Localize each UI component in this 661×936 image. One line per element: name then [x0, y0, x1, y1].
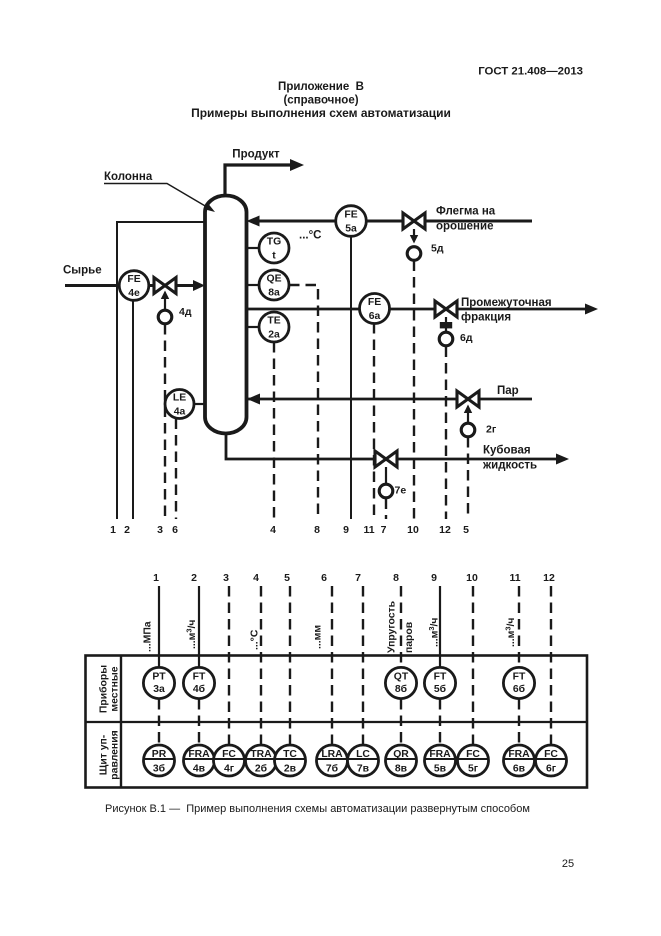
svg-text:5д: 5д — [431, 243, 444, 255]
svg-text:6г: 6г — [546, 764, 557, 775]
svg-text:8: 8 — [314, 524, 320, 536]
wire col8 — [400, 586, 402, 667]
svg-text:жидкость: жидкость — [482, 460, 537, 472]
pipe intermediate fraction line — [246, 308, 586, 311]
svg-text:2б: 2б — [255, 763, 267, 775]
instrument PT 3a — [143, 667, 174, 698]
wire line 5 dashed (from actuator 2г down) — [467, 437, 469, 519]
svg-text:Рисунок В.1 — Пример выполнен: Рисунок В.1 — Пример выполнения схемы ав… — [105, 803, 530, 815]
valve 5д — [403, 213, 414, 229]
instrument TE 2a — [246, 326, 260, 328]
valve 4д — [154, 278, 165, 294]
wire line 4 dashed (from TE 2a down) — [273, 342, 275, 519]
pipe steam line (Пар) — [246, 398, 532, 401]
svg-text:4е: 4е — [128, 288, 140, 299]
instrument QT 8б — [385, 667, 416, 698]
svg-text:9: 9 — [431, 572, 437, 584]
instrument FC 4г — [214, 745, 245, 776]
svg-text:2в: 2в — [284, 764, 296, 775]
wire line 10 dashed (from actuator 5д down) — [413, 261, 415, 520]
svg-text:7е: 7е — [395, 485, 407, 497]
valve 6д — [435, 301, 446, 317]
svg-text:Колонна: Колонна — [104, 171, 153, 183]
svg-text:TE: TE — [267, 316, 280, 327]
instrument LC 7в — [348, 745, 379, 776]
svg-text:Продукт: Продукт — [232, 149, 280, 161]
svg-text:7: 7 — [381, 524, 387, 536]
svg-text:12: 12 — [439, 524, 451, 536]
wire line 2 (from FE 4e down) — [132, 299, 134, 519]
svg-text:QT: QT — [394, 672, 409, 683]
wire col6 — [331, 586, 333, 745]
svg-text:5а: 5а — [345, 224, 357, 235]
svg-text:6: 6 — [321, 572, 327, 584]
svg-text:FE: FE — [368, 297, 381, 308]
svg-text:FE: FE — [127, 274, 140, 285]
wire col9 — [439, 586, 441, 667]
valve 2г — [457, 391, 468, 407]
svg-text:FT: FT — [513, 672, 526, 683]
wire line 6 dashed (from LE 4a down) — [175, 419, 177, 520]
svg-text:4: 4 — [270, 524, 276, 536]
wire col12 — [550, 586, 552, 745]
svg-text:6б: 6б — [513, 683, 525, 695]
svg-text:8: 8 — [393, 572, 399, 584]
svg-text:равления: равления — [110, 730, 121, 779]
svg-text:FRA: FRA — [429, 749, 451, 760]
instrument QR 8в — [386, 745, 417, 776]
svg-text:Приложение В: Приложение В — [278, 81, 364, 93]
svg-text:фракция: фракция — [461, 312, 511, 324]
wire line 11 dashed (from FE 6a down) — [373, 323, 375, 519]
svg-text:8б: 8б — [395, 683, 407, 695]
pipe feed line Сырье — [65, 284, 193, 287]
actuator 6д (black square + circle) — [445, 317, 447, 332]
instrument TC 2в — [275, 745, 306, 776]
instrument LRA 7б — [317, 745, 348, 776]
svg-text:4: 4 — [253, 572, 259, 584]
svg-text:5: 5 — [284, 572, 290, 584]
svg-text:5б: 5б — [434, 683, 446, 695]
svg-text:5г: 5г — [468, 764, 479, 775]
instrument FT 4б — [183, 667, 214, 698]
actuator 7е (stem + circle) — [385, 467, 387, 484]
svg-text:6в: 6в — [513, 764, 525, 775]
svg-text:2: 2 — [124, 524, 130, 536]
svg-text:...мм: ...мм — [313, 625, 324, 649]
svg-text:паров: паров — [404, 622, 415, 653]
svg-text:Промежуточная: Промежуточная — [461, 297, 552, 309]
svg-text:4д: 4д — [179, 306, 192, 318]
instrument FRA 4в — [184, 745, 215, 776]
svg-text:TG: TG — [267, 237, 281, 248]
svg-text:QE: QE — [266, 274, 281, 285]
svg-text:6д: 6д — [460, 332, 473, 344]
svg-text:орошение: орошение — [436, 221, 493, 233]
wire line 3 dashed (from actuator 4д down) — [164, 324, 166, 519]
svg-text:9: 9 — [343, 524, 349, 536]
svg-text:11: 11 — [509, 572, 520, 584]
svg-text:Флегма на: Флегма на — [436, 206, 496, 218]
instrument PR 3б — [144, 745, 175, 776]
instrument TRA 2б — [246, 745, 277, 776]
svg-text:Примеры выполнения схем автома: Примеры выполнения схем автоматизации — [191, 106, 451, 120]
instrument FRA 5в — [425, 745, 456, 776]
svg-text:...МПа: ...МПа — [143, 621, 154, 652]
svg-text:Щит уп-: Щит уп- — [99, 734, 110, 775]
svg-text:TRA: TRA — [250, 749, 272, 760]
svg-text:TC: TC — [283, 749, 297, 760]
svg-text:местные: местные — [110, 666, 121, 711]
svg-text:1: 1 — [110, 524, 116, 536]
svg-text:FRA: FRA — [508, 749, 530, 760]
svg-text:Упругость: Упругость — [387, 601, 398, 653]
svg-text:PR: PR — [152, 749, 167, 760]
svg-text:PT: PT — [152, 672, 166, 683]
svg-text:2а: 2а — [268, 330, 280, 341]
pipe reflux line (Флегма на орошение) — [258, 220, 532, 223]
wire col1 — [158, 586, 160, 667]
wire col4 — [260, 586, 262, 745]
wire col7 — [362, 586, 364, 745]
svg-text:6а: 6а — [369, 311, 381, 322]
table frame — [86, 656, 588, 788]
wire col11 — [518, 586, 520, 667]
svg-text:5в: 5в — [434, 764, 446, 775]
wire col10 — [472, 586, 474, 745]
svg-text:FC: FC — [222, 749, 236, 760]
instrument FE 5a — [336, 206, 367, 237]
svg-text:3б: 3б — [153, 763, 165, 775]
svg-text:4б: 4б — [193, 683, 205, 695]
svg-text:LC: LC — [356, 749, 370, 760]
svg-text:1: 1 — [153, 572, 159, 584]
svg-text:Сырье: Сырье — [63, 265, 102, 277]
svg-text:6: 6 — [172, 524, 178, 536]
svg-text:3а: 3а — [153, 684, 165, 695]
svg-text:FC: FC — [466, 749, 480, 760]
wire col5 — [289, 586, 291, 745]
pipe product line — [225, 165, 291, 196]
svg-text:5: 5 — [463, 524, 469, 536]
instrument FE 4e — [119, 271, 149, 301]
column vessel (Колонна) — [205, 196, 247, 434]
wire line 12 dashed (from actuator 6д down) — [445, 347, 447, 520]
actuator 4д (arrow up + circle) — [164, 297, 166, 310]
svg-text:...м3/ч: ...м3/ч — [185, 620, 199, 649]
wire col3 — [228, 586, 230, 745]
svg-text:2г: 2г — [486, 424, 497, 436]
wire line 9 (from FE 5a down) — [350, 236, 352, 519]
instrument FE 6a — [360, 294, 390, 324]
svg-text:Приборы: Приборы — [98, 665, 110, 713]
svg-text:FC: FC — [544, 749, 558, 760]
actuator 2г (arrow up + circle) — [467, 411, 469, 423]
svg-text:t: t — [272, 251, 276, 262]
svg-text:8а: 8а — [268, 288, 280, 299]
svg-text:7: 7 — [355, 572, 361, 584]
svg-text:Пар: Пар — [497, 385, 519, 397]
svg-text:...м3/ч: ...м3/ч — [504, 618, 518, 647]
svg-text:10: 10 — [407, 524, 419, 536]
svg-text:4г: 4г — [224, 764, 235, 775]
svg-text:7б: 7б — [326, 763, 338, 775]
svg-text:FT: FT — [193, 672, 206, 683]
svg-text:2: 2 — [191, 572, 197, 584]
wire line 7 dashed (from actuator 7е down) — [385, 499, 387, 520]
svg-text:Кубовая: Кубовая — [483, 445, 531, 457]
svg-text:4в: 4в — [193, 764, 205, 775]
svg-text:...°С: ...°С — [250, 629, 261, 650]
wire line 8 dashed (from QE 8a right then down) — [289, 285, 318, 519]
svg-text:QR: QR — [393, 749, 409, 760]
instrument QE 8a — [246, 284, 260, 286]
valve 7е — [375, 451, 386, 467]
instrument FT 5б — [424, 667, 455, 698]
instrument FC 5г — [458, 745, 489, 776]
svg-text:...°С: ...°С — [299, 230, 322, 242]
svg-text:12: 12 — [543, 572, 555, 584]
instrument LE 4a — [194, 403, 206, 405]
svg-text:FT: FT — [434, 672, 447, 683]
svg-text:4а: 4а — [174, 407, 186, 418]
svg-text:10: 10 — [466, 572, 478, 584]
svg-text:FE: FE — [344, 210, 357, 221]
wire line 1 (pressure tap from column) — [117, 222, 205, 519]
svg-text:LRA: LRA — [321, 749, 343, 760]
svg-text:ГОСТ 21.408—2013: ГОСТ 21.408—2013 — [478, 66, 583, 78]
instrument TG t — [246, 247, 260, 249]
svg-text:3: 3 — [223, 572, 229, 584]
svg-text:8в: 8в — [395, 764, 407, 775]
svg-text:FRA: FRA — [188, 749, 210, 760]
actuator 5д (arrow down + circle) — [413, 229, 415, 236]
instrument FT 6б — [503, 667, 534, 698]
svg-text:(справочное): (справочное) — [283, 95, 358, 107]
svg-text:LE: LE — [173, 393, 186, 404]
svg-text:25: 25 — [562, 858, 574, 870]
svg-text:3: 3 — [157, 524, 163, 536]
svg-text:11: 11 — [363, 524, 374, 536]
pipe bottoms line (Кубовая жидкость) — [226, 432, 557, 459]
instrument FRA 6в — [504, 745, 535, 776]
wire col2 — [198, 586, 200, 667]
svg-text:...м3/ч: ...м3/ч — [427, 618, 441, 647]
svg-text:7в: 7в — [357, 764, 369, 775]
instrument FC 6г — [536, 745, 567, 776]
